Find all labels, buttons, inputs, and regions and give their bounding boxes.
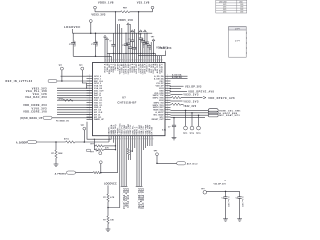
svg-text:3: 3 (153, 138, 154, 140)
svg-text:TP?: TP? (96, 151, 99, 153)
capacitor C? (239, 191, 241, 196)
svg-text:DP_TX0: DP_TX0 (152, 126, 154, 134)
wire (top pin column) (136, 33, 138, 62)
svg-text:WAKE_UP: WAKE_UP (94, 118, 105, 121)
svg-text:VD33_3V3: VD33_3V3 (91, 12, 106, 16)
svg-text:C?: C? (128, 39, 130, 41)
svg-text:C?: C? (91, 44, 94, 46)
wire (top pin column) (121, 28, 123, 63)
wire (top pin column) (154, 53, 156, 62)
wire (top pin column) (127, 25, 129, 43)
wire (to pin) (108, 136, 120, 208)
svg-text:V3D_CORE_1V8: V3D_CORE_1V8 (139, 188, 141, 209)
junction (115, 11, 116, 12)
svg-text:2: 2 (150, 138, 151, 140)
capacitor (126, 42, 130, 44)
junction (191, 112, 193, 114)
svg-text:2V5: 2V5 (223, 12, 226, 14)
svg-text:2: 2 (112, 138, 113, 140)
svg-text:9: 9 (160, 59, 161, 61)
wire bus (right, to label) (138, 51, 165, 56)
wire VGA group (57, 88, 93, 100)
wire (left pin row 1) (61, 75, 93, 77)
net label oval (177, 162, 186, 165)
svg-text:3: 3 (133, 138, 134, 140)
junction (95, 32, 97, 34)
svg-text:TP?: TP? (154, 151, 159, 153)
svg-text:U_P?: U_P? (235, 41, 241, 43)
junction (94, 139, 95, 140)
svg-text:Y832_3V3: Y832_3V3 (159, 47, 172, 50)
svg-text:VDD_DPEYE_AV8: VDD_DPEYE_AV8 (208, 97, 235, 100)
svg-text:7: 7 (118, 59, 119, 61)
wire (107, 185, 109, 194)
svg-text:C?: C? (139, 34, 141, 36)
junction (225, 191, 227, 193)
wire (top pin column) (112, 33, 114, 44)
ground (237, 218, 242, 220)
junction (115, 145, 116, 146)
connector pin (circle) (198, 115, 200, 126)
svg-text:5: 5 (114, 59, 115, 61)
junction (125, 53, 126, 54)
svg-text:9: 9 (122, 59, 123, 61)
net tie bar (125, 185, 127, 187)
svg-text:2: 2 (127, 59, 128, 61)
wire (171, 109, 209, 111)
power flag VDD5_1V8 (94, 6, 97, 9)
svg-text:R?: R? (103, 197, 106, 199)
wire (top pin column) (140, 33, 142, 38)
resistor R? (107, 194, 109, 202)
svg-text:A_PRSNT#: A_PRSNT# (55, 172, 67, 175)
wire (181, 103, 184, 105)
capacitor C? (173, 118, 175, 126)
svg-text:9: 9 (127, 138, 128, 140)
power flag VD33_3V3 (89, 20, 92, 23)
svg-text:7: 7 (156, 59, 157, 61)
ground (172, 137, 177, 139)
wire (145, 136, 147, 148)
wire top rail (95, 11, 121, 13)
svg-text:2: 2 (145, 59, 146, 61)
wire (pin to junctions) (114, 136, 116, 150)
svg-text:7: 7 (137, 59, 138, 61)
wire (171, 90, 188, 92)
svg-text:4: 4 (135, 138, 136, 140)
wire (132, 136, 134, 152)
capacitor (143, 42, 147, 44)
wire (top pin column) (125, 33, 127, 44)
svg-text:3: 3 (114, 138, 115, 140)
svg-text:8: 8 (120, 59, 121, 61)
net tie bar (121, 185, 123, 187)
svg-text:V33_DP_3V3: V33_DP_3V3 (214, 184, 227, 186)
junction (55, 141, 57, 143)
IC U? right pin stubs (165, 76, 171, 119)
wire (top pin column) (142, 38, 144, 41)
wire (142, 136, 144, 150)
connector U_P? box (229, 27, 247, 58)
IC U? right pin numbers (167, 75, 168, 120)
power flag (on rail) (139, 30, 142, 32)
test point circle (99, 152, 102, 155)
wire (top pin column) (133, 29, 135, 48)
svg-text:MIC_SDAT_UP3: MIC_SDAT_UP3 (219, 114, 240, 117)
svg-text:C?: C? (69, 44, 72, 46)
junction (173, 117, 175, 119)
wire (top pin column) (138, 12, 140, 63)
power flag (106, 38, 109, 40)
capacitor (145, 41, 149, 43)
svg-text:CH7511B-BF: CH7511B-BF (117, 101, 136, 105)
wire (134, 136, 136, 148)
wire (171, 100, 183, 102)
capacitor C? (225, 191, 227, 196)
net label oval (208, 111, 218, 114)
wire (171, 75, 188, 77)
wire (157, 162, 177, 164)
svg-text:0.1u: 0.1u (143, 45, 145, 48)
wire (149, 136, 151, 146)
wire rail1 (73, 32, 153, 34)
svg-text:1V8: 1V8 (240, 12, 243, 14)
net label oval (small) (86, 149, 91, 151)
wire (171, 97, 172, 99)
capacitor C? (x=95.5) (95, 33, 97, 42)
svg-text:TP?: TP? (201, 188, 204, 190)
svg-text:1u,16V: 1u,16V (74, 40, 76, 47)
resistor R? (107, 208, 109, 217)
junction (119, 53, 120, 54)
svg-text:2: 2 (108, 59, 109, 61)
capacitor (141, 40, 145, 42)
junction (132, 53, 133, 54)
IC U? left pin labels (inside) (94, 76, 105, 121)
svg-text:3: 3 (129, 59, 130, 61)
svg-text:4.7K: 4.7K (105, 146, 109, 149)
resistor R? (172, 103, 181, 105)
junction (95, 56, 97, 58)
svg-text:V3D_1V8_PLL9: V3D_1V8_PLL9 (126, 188, 128, 208)
wire (top pin column) (150, 42, 152, 63)
svg-text:V33_1V8: V33_1V8 (137, 1, 150, 5)
svg-text:REF_IN_LVTTL33: REF_IN_LVTTL33 (6, 80, 33, 83)
svg-text:(D)SD_WAKE_UP: (D)SD_WAKE_UP (20, 117, 42, 120)
junction (170, 91, 171, 92)
svg-text:9: 9 (141, 59, 142, 61)
wire (top pin column) (106, 40, 108, 63)
wire (207, 190, 240, 192)
svg-text:2: 2 (131, 138, 132, 140)
svg-text:6: 6 (140, 138, 141, 140)
svg-text:C?: C? (168, 126, 171, 128)
svg-text:8: 8 (139, 59, 140, 61)
svg-text:4: 4 (112, 59, 113, 61)
junction (113, 53, 114, 54)
svg-text:ACT_0# c#: ACT_0# c# (187, 162, 198, 165)
svg-text:1: 1 (162, 59, 163, 61)
junction (198, 114, 200, 116)
junction (185, 110, 187, 112)
svg-text:PD_WAKE_3V3: PD_WAKE_3V3 (56, 119, 69, 122)
IC U? right pin labels (inside) (152, 75, 165, 121)
wire (151, 136, 153, 146)
junction (107, 207, 109, 209)
wire (top pin column) (157, 56, 159, 63)
svg-text:A?33: A?33 (59, 98, 64, 101)
svg-text:LOGOVCC: LOGOVCC (64, 25, 81, 29)
svg-text:VDD18_C: VDD18_C (161, 63, 163, 73)
wire (55, 158, 57, 164)
wire (171, 88, 182, 90)
capacitor (124, 43, 128, 45)
power flag (99, 161, 102, 164)
junction (90, 32, 92, 34)
svg-text:VDD_CORE_1V8: VDD_CORE_1V8 (23, 111, 47, 114)
wire (to bottom pin 5) (117, 136, 119, 173)
svg-text:4.7K: 4.7K (110, 196, 115, 199)
svg-text:C?: C? (122, 45, 124, 47)
IC U? bottom pin labels (inside, rotated) (108, 123, 154, 135)
wire (bottom net) (136, 136, 138, 187)
connector pin (circle) (185, 110, 187, 126)
wire (171, 114, 209, 116)
net tie bar (136, 185, 138, 187)
svg-text:7: 7 (142, 138, 143, 140)
ground (223, 218, 228, 220)
svg-text:TP?2: TP?2 (190, 133, 194, 135)
IC U? left pin numbers (89, 75, 90, 120)
svg-text:5: 5 (133, 59, 134, 61)
svg-text:6: 6 (120, 138, 121, 140)
wire bus (y=53.4) (107, 52, 155, 54)
svg-text:1: 1 (129, 138, 130, 140)
junction (140, 53, 141, 54)
resistor R? (pulldown to ground) (55, 142, 57, 150)
wire (bottom net) (123, 136, 125, 187)
wire VDD group (57, 105, 93, 115)
wire (107, 224, 109, 230)
svg-text:4: 4 (131, 59, 132, 61)
svg-text:3: 3 (148, 59, 149, 61)
svg-text:8: 8 (144, 138, 145, 140)
wire (top pin column) (115, 12, 117, 63)
net tie bar (123, 185, 125, 187)
arrow tick (203, 96, 206, 98)
wire rail2 to pin (73, 56, 111, 62)
wire (171, 78, 188, 80)
junction (61, 80, 63, 82)
wire (107, 202, 109, 208)
wire (top pin column) (146, 33, 148, 42)
table: revision/net table (216, 0, 247, 14)
svg-text:Y832_3V3: Y832_3V3 (183, 100, 199, 103)
svg-text:R?: R? (51, 153, 54, 155)
junction (100, 172, 102, 174)
svg-text:0.1u: 0.1u (133, 31, 135, 34)
junction (153, 53, 154, 54)
wire (top pin column) (129, 24, 131, 47)
svg-text:VDD5_1V8: VDD5_1V8 (98, 1, 114, 5)
wire (171, 85, 184, 87)
wire (top pin column) (108, 53, 110, 62)
wire (top pin column) (152, 53, 154, 62)
svg-text:1: 1 (124, 59, 125, 61)
svg-text:TP?: TP? (81, 125, 86, 127)
wire (181, 97, 203, 99)
resistor R? (93, 171, 100, 173)
wire (76, 172, 94, 174)
svg-text:V33_DP_3V3: V33_DP_3V3 (185, 85, 202, 88)
svg-text:0.1u: 0.1u (162, 129, 167, 131)
svg-text:10K: 10K (110, 219, 114, 221)
svg-text:6: 6 (116, 59, 117, 61)
svg-text:8: 8 (125, 138, 126, 140)
net label oval (28, 140, 37, 143)
net tie bar (138, 185, 140, 187)
capacitor value labels (cluster) (109, 31, 152, 51)
svg-text:6: 6 (154, 59, 155, 61)
power flag V33_1V8 (151, 6, 154, 9)
svg-text:TP?: TP? (79, 65, 83, 67)
IC U? body (93, 63, 166, 136)
svg-text:TP?3: TP?3 (196, 133, 200, 135)
svg-text:5: 5 (152, 59, 153, 61)
svg-text:0.1u: 0.1u (150, 47, 152, 50)
junction (170, 86, 171, 87)
power flag (104, 35, 107, 37)
svg-text:9: 9 (146, 138, 147, 140)
svg-text:1: 1 (143, 59, 144, 61)
wire (130, 136, 132, 160)
wire + resistor R? (series) (127, 136, 129, 149)
capacitor (139, 37, 143, 39)
svg-text:Y832_3V3: Y832_3V3 (183, 106, 197, 108)
wire (94, 145, 95, 147)
svg-text:VGA_DAC_3V3: VGA_DAC_3V3 (25, 96, 47, 99)
svg-text:A?CC: A?CC (64, 138, 70, 141)
wire (147, 136, 149, 146)
IC U? top pin numbers (106, 59, 164, 61)
svg-text:C?: C? (109, 41, 111, 43)
wire (57, 80, 93, 82)
wire (top pin column) (144, 33, 146, 42)
svg-text:100K: 100K (58, 153, 63, 155)
wire (to bottom pin 1) (108, 136, 110, 142)
svg-text:3: 3 (110, 59, 111, 61)
svg-text:TP?: TP? (151, 36, 154, 38)
wire (top pin column) (148, 44, 150, 46)
svg-text:4: 4 (150, 59, 151, 61)
svg-text:R??: R?? (91, 144, 95, 146)
svg-text:1: 1 (148, 138, 149, 140)
wire (bottom net) (140, 136, 142, 187)
capacitor (147, 45, 151, 47)
wire A_SADDR (37, 141, 66, 143)
wire (resistor pair feed) (93, 139, 95, 150)
wire (top pin column) (119, 24, 121, 63)
wire (52, 117, 93, 119)
svg-text:V33T_2V5_PW: V33T_2V5_PW (124, 188, 126, 207)
net label oval (48, 79, 57, 82)
wire (top pin column) (159, 56, 161, 63)
wire (171, 103, 172, 105)
svg-text:R?: R? (103, 219, 106, 221)
wire (top pin column) (131, 33, 133, 40)
resistor R? (172, 96, 181, 98)
capacitor (132, 47, 136, 49)
svg-text:5: 5 (137, 138, 138, 140)
power flag (127, 23, 130, 25)
capacitor (130, 39, 134, 41)
wire (171, 112, 209, 114)
svg-text:0.1u,16V: 0.1u,16V (227, 197, 229, 208)
svg-text:A_SADDR: A_SADDR (16, 141, 27, 144)
svg-text:VDD5_1V8: VDD5_1V8 (118, 18, 133, 22)
wire (bottom net) (121, 136, 123, 187)
net label oval (208, 109, 218, 112)
left pin 20 wire (around corner) (87, 122, 111, 139)
junction (115, 149, 116, 150)
junction (146, 33, 147, 34)
capacitor (111, 44, 115, 46)
svg-text:R??: R?? (91, 151, 95, 153)
wire (94, 149, 95, 151)
svg-text:LOGOVCC: LOGOVCC (104, 182, 117, 185)
wire top rail right (130, 11, 153, 13)
svg-text:1u,16V: 1u,16V (97, 40, 99, 47)
capacitor (128, 46, 132, 48)
IC U? left pin stubs (87, 76, 93, 119)
wire LOGOVCC stem (72, 29, 74, 33)
ground (106, 228, 111, 230)
svg-text:C?: C? (146, 43, 148, 45)
wire (bottom net) (125, 136, 127, 187)
junction (138, 33, 139, 34)
wire (top pin column) (161, 56, 163, 63)
wire (171, 93, 183, 95)
wire (top pin column) (104, 37, 106, 62)
net label oval (208, 114, 218, 117)
svg-text:TP?1: TP?1 (183, 133, 187, 135)
svg-text:8: 8 (158, 59, 159, 61)
junction (170, 88, 171, 89)
net label oval (43, 116, 52, 119)
svg-text:Y833_3V3: Y833_3V3 (183, 94, 199, 97)
wire (bottom net) (138, 136, 140, 187)
svg-text:m: m (224, 180, 226, 182)
connector pin (circle) (191, 113, 193, 126)
ground (54, 163, 59, 165)
svg-text:U?: U? (122, 96, 126, 100)
wire (top pin column) (123, 53, 125, 62)
svg-text:C?: C? (134, 49, 136, 51)
power flag (on rail) (144, 30, 147, 32)
net label oval (67, 171, 76, 174)
wire (top pin column) (117, 24, 119, 63)
resistor R? (inline) (63, 99, 73, 101)
capacitor C? (x=73) (72, 33, 74, 42)
svg-text:6: 6 (135, 59, 136, 61)
wire (row with cap) (171, 117, 206, 119)
svg-text:RESET_OUT: RESET_OUT (152, 119, 165, 121)
junction (156, 163, 158, 165)
svg-text:4: 4 (116, 138, 117, 140)
power flag (on rail) (131, 30, 134, 32)
svg-text:1: 1 (106, 59, 107, 61)
svg-text:5: 5 (118, 138, 119, 140)
